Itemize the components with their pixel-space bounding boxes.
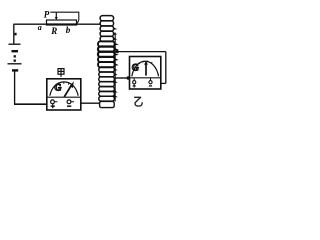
meter A ticks [54,82,69,87]
meter B needle [145,64,147,76]
meter B terminals [133,81,136,84]
slider arrow P [55,13,57,18]
meter B box [130,57,161,90]
meter A divider [47,96,81,98]
meter A needle arrowhead [70,81,74,88]
node blob on left wire [15,33,17,36]
label jia (drawn glyph) [58,69,64,77]
battery plate2 short thick [12,50,19,52]
meter B ticks [139,61,152,64]
wire battery down [14,72,16,105]
meter A plus minus [51,104,55,108]
battery E plate1 long [9,43,21,45]
meter B dial arc [132,61,159,76]
slider bypass wire [50,12,79,20]
coil last turn (outlined) [100,101,115,107]
meter B plus minus [133,84,136,87]
rheostat R [47,12,79,25]
wire top horizontal [14,23,102,25]
meter A box [47,79,81,110]
svg-text:R: R [50,26,57,36]
svg-text:b: b [66,25,71,35]
meter A needle [64,85,71,97]
wire coil tap lower to meter B [115,77,128,79]
wire left vertical to battery [13,24,15,44]
wire coil tap upper to right [116,51,166,53]
meter B divider [130,77,161,79]
core right line [114,33,116,101]
wire bottom horizontal to meter A [14,103,47,105]
junction blob coil upper tap [116,50,119,53]
wire stub into meter B right terminal [161,82,166,84]
battery plate3 long [8,63,22,65]
meter A dial arc [50,82,78,96]
meter B (galvanometer yi) [130,57,161,90]
svg-text:a: a [38,23,42,32]
meter A (galvanometer jia) [47,79,81,110]
battery plate4 short thick [12,69,18,71]
meter A terminals [51,100,55,104]
wire meter A to coil bottom [81,102,100,104]
svg-text:P: P [44,10,50,20]
meter B needle arrowhead [144,60,148,64]
battery dots [14,55,16,57]
resistor body R [47,20,77,25]
coil turn tips right [113,27,117,30]
svg-text:G: G [132,63,139,73]
coil with iron core [98,16,119,108]
junction dot at meter B left [127,76,130,79]
label yi (drawn glyph) [135,97,143,106]
svg-text:G: G [54,83,61,93]
wire right vertical down [165,52,167,84]
